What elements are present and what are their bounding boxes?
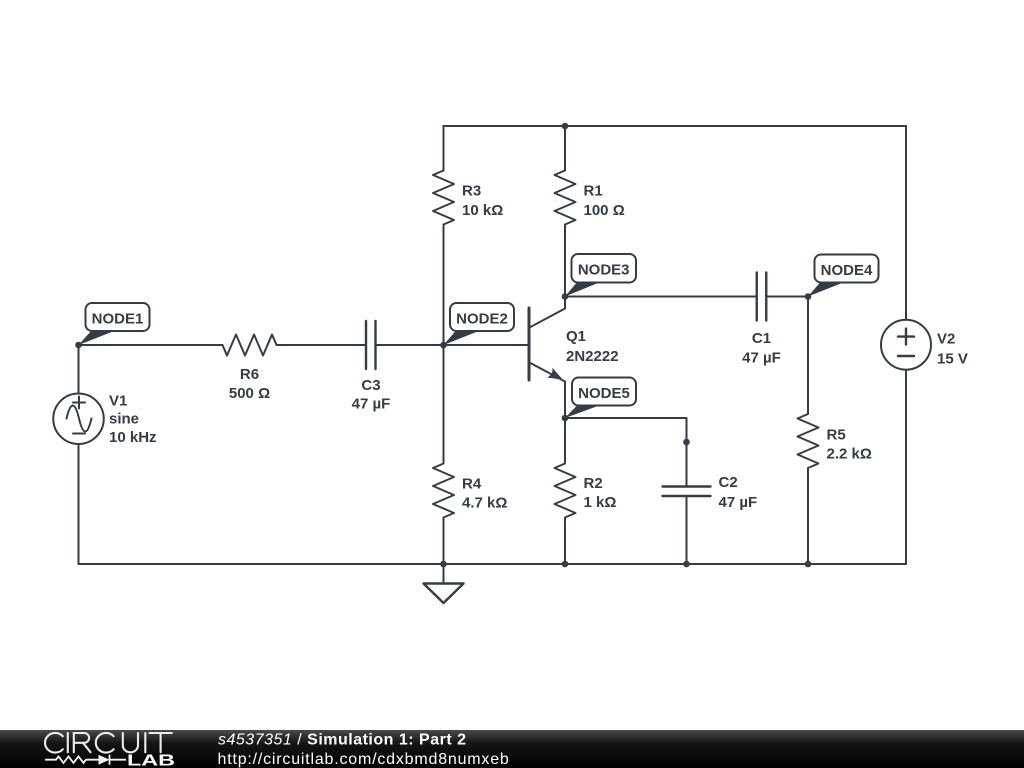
capacitor C3 plates <box>366 321 376 369</box>
svg-text:s4537351 / Simulation 1: Part: s4537351 / Simulation 1: Part 2 <box>218 732 467 749</box>
wire R5 bottom lead <box>807 468 809 564</box>
svg-text:47 µF: 47 µF <box>742 350 781 367</box>
Q1 emitter arrow <box>547 368 563 380</box>
source V1 circle <box>53 394 104 445</box>
svg-text:R3: R3 <box>462 183 481 200</box>
wire R3 bottom lead to NODE2 <box>443 225 445 346</box>
resistor R2 <box>555 464 576 518</box>
wire R2 bottom lead <box>564 518 566 565</box>
svg-text:sine: sine <box>109 411 139 428</box>
ground triangle <box>424 584 464 604</box>
node dot C2 branch <box>683 439 690 446</box>
wire R4 bottom lead <box>443 518 445 565</box>
node dot C2 bottom <box>683 561 690 568</box>
svg-text:1 kΩ: 1 kΩ <box>584 494 617 511</box>
svg-text:100 Ω: 100 Ω <box>584 202 625 219</box>
svg-text:C3: C3 <box>361 377 380 394</box>
wire R4 top lead <box>443 345 445 464</box>
wire C1 to NODE4 <box>766 296 808 298</box>
node dot NODE3 collector <box>562 293 569 300</box>
resistor R4 <box>433 464 454 518</box>
source V2 circle <box>881 320 931 370</box>
wire R6 to C3 <box>277 344 367 346</box>
svg-text:R1: R1 <box>584 183 603 200</box>
wire R1 top lead <box>564 126 566 171</box>
svg-text:NODE5: NODE5 <box>578 385 630 402</box>
svg-text:10 kHz: 10 kHz <box>109 429 157 446</box>
V2 minus <box>898 355 914 357</box>
wire R1 bottom lead to collector node <box>564 225 566 297</box>
node NODE5 <box>565 378 636 419</box>
svg-text:V2: V2 <box>937 331 955 348</box>
node NODE3 <box>565 254 636 297</box>
wire bottom rail <box>79 563 907 565</box>
svg-text:10 kΩ: 10 kΩ <box>462 202 503 219</box>
svg-text:LAB: LAB <box>127 753 175 768</box>
wire R2 top lead <box>564 418 566 464</box>
wire V1 bottom lead <box>78 444 80 564</box>
svg-text:2N2222: 2N2222 <box>566 348 619 365</box>
node NODE4 <box>808 255 879 297</box>
svg-text:http://circuitlab.com/cdxbmd8n: http://circuitlab.com/cdxbmd8numxeb <box>218 751 510 768</box>
svg-text:NODE3: NODE3 <box>578 262 630 279</box>
svg-text:R4: R4 <box>462 475 482 492</box>
ground stem <box>443 564 445 584</box>
node dot R5 bottom <box>805 561 812 568</box>
wire NODE4 to R5 <box>807 297 809 415</box>
node NODE2 <box>444 303 515 345</box>
node dot ground <box>440 561 447 568</box>
capacitor C1 plates <box>757 273 767 321</box>
node dot top rail <box>562 123 569 130</box>
wire top rail <box>444 125 907 127</box>
node dot R2 bottom <box>562 561 569 568</box>
resistor R6 <box>223 335 277 356</box>
logo resistor-diode glyph <box>45 755 126 765</box>
svg-text:47 µF: 47 µF <box>352 395 391 412</box>
node dot NODE2 <box>440 342 447 349</box>
svg-text:4.7 kΩ: 4.7 kΩ <box>462 494 507 511</box>
wire emitter row to C2 corner <box>565 418 687 487</box>
svg-text:NODE4: NODE4 <box>821 262 873 279</box>
svg-text:R2: R2 <box>584 475 603 492</box>
V2 plus <box>898 329 914 345</box>
svg-text:C1: C1 <box>752 330 771 347</box>
V1 minus <box>73 433 85 435</box>
svg-text:15 V: 15 V <box>937 350 968 367</box>
svg-text:Q1: Q1 <box>566 328 586 345</box>
svg-text:500 Ω: 500 Ω <box>229 385 270 402</box>
node NODE1 <box>79 303 150 345</box>
wire right rail upper (V2 top lead) <box>905 126 907 320</box>
node dot NODE5 emitter <box>562 415 569 422</box>
logo CIRCUIT <box>45 733 172 753</box>
node dot NODE1 <box>75 342 82 349</box>
capacitor C2 plates <box>663 487 711 497</box>
Q1 emitter lead <box>530 363 566 419</box>
transistor Q1 base bar <box>528 308 531 380</box>
svg-text:R6: R6 <box>240 366 259 383</box>
wire V1 top lead <box>78 345 80 394</box>
wire C2 bottom lead <box>686 496 688 564</box>
svg-text:NODE2: NODE2 <box>456 311 508 328</box>
svg-text:NODE1: NODE1 <box>92 311 144 328</box>
V1 plus <box>73 397 85 409</box>
svg-text:2.2 kΩ: 2.2 kΩ <box>827 446 872 463</box>
resistor R5 <box>798 414 819 468</box>
resistor R1 <box>555 171 576 225</box>
svg-text:R5: R5 <box>827 426 846 443</box>
svg-text:V1: V1 <box>109 393 127 410</box>
svg-text:47 µF: 47 µF <box>719 494 758 511</box>
svg-text:C2: C2 <box>719 474 738 491</box>
wire R3 branch top lead <box>443 126 445 171</box>
V1 sine <box>67 406 92 432</box>
node dot NODE4 <box>805 293 812 300</box>
resistor R3 <box>433 171 454 225</box>
wire right rail lower (V2 bottom lead) <box>905 370 907 564</box>
wire input row: NODE1 to R6 <box>79 344 223 346</box>
wire C3 to base <box>376 344 528 346</box>
wire collector row to C1 <box>565 296 757 298</box>
Q1 collector lead <box>530 297 566 328</box>
